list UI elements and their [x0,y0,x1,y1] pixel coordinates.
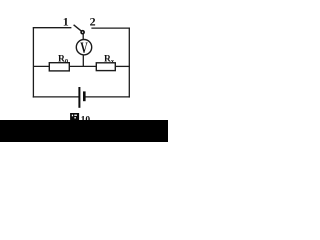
wire middle branch right [115,65,130,67]
resistor Rx box [96,63,115,71]
svg-text:1: 1 [63,14,69,28]
switch blade [74,25,82,31]
black bar bottom [0,120,168,142]
wire voltmeter stem upper [82,34,84,40]
wire right edge [128,28,130,98]
resistor R0 box [49,63,69,71]
wire middle branch left [33,65,50,67]
wire left edge [32,27,34,97]
wire voltmeter stem lower [82,55,84,67]
svg-text:2: 2 [90,15,96,29]
voltmeter U1 circle [76,40,91,55]
battery long plate [78,87,80,108]
wire middle branch center between resistors [69,65,96,67]
battery short plate [83,91,86,101]
caption figure character tu [70,113,79,121]
wire bottom-left to battery [33,96,79,98]
svg-text:V: V [80,40,88,57]
switch pivot ring [81,31,84,34]
wire top-left segment to contact 1 [33,27,72,29]
wire top-right segment from contact 2 [91,27,129,29]
wire bottom-right from battery [85,96,130,98]
